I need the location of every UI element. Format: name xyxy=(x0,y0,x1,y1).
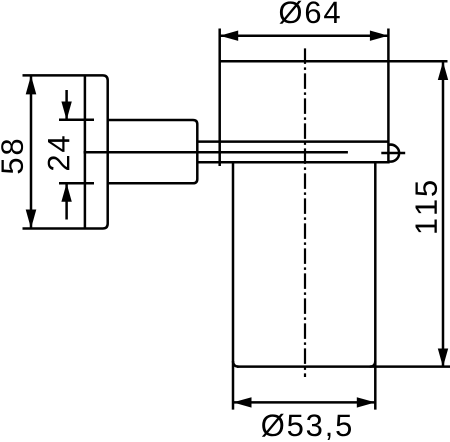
tumbler bottom right rounded corner xyxy=(370,361,376,367)
dim line diameter 64 xyxy=(220,34,389,37)
arrow 24 top (pointing down) xyxy=(61,102,71,121)
label dia 53,5 xyxy=(262,414,351,440)
tumbler body right edge + diameter extension xyxy=(374,162,377,409)
tumbler right edge upper (with dim extension) xyxy=(387,29,390,164)
arrow 58 bottom xyxy=(26,210,37,229)
dim line diameter 53.5 xyxy=(233,401,375,404)
label 115 xyxy=(416,181,438,233)
dim 24 top extension line xyxy=(59,119,94,122)
dim 24 bottom extension line xyxy=(59,182,94,185)
arrow dia64 right xyxy=(370,31,389,41)
dim 24 bottom arrow leader xyxy=(65,183,68,219)
arrow dia64 left xyxy=(220,31,239,41)
rod top edge xyxy=(197,140,388,143)
label dia 64 xyxy=(280,1,340,24)
arrow 115 top xyxy=(438,62,448,81)
label 58 xyxy=(1,140,23,174)
label 24 xyxy=(48,136,70,170)
tumbler bottom left rounded corner xyxy=(233,361,239,367)
rod bottom edge xyxy=(197,161,388,164)
arrow 58 top xyxy=(26,75,37,94)
rod tip crosshair xyxy=(381,152,405,155)
tumbler left edge upper (with dim extension) xyxy=(218,29,221,167)
vertical centerline dash-dot xyxy=(304,48,306,377)
dim 24 top arrow leader xyxy=(65,90,68,120)
wall plate xyxy=(23,75,108,228)
arrow 24 bottom (pointing up) xyxy=(61,183,71,202)
arrow 115 bottom xyxy=(438,349,448,368)
arrow dia53.5 right xyxy=(357,397,376,407)
dim line 58 xyxy=(30,75,33,228)
arrow dia53.5 left xyxy=(233,397,252,407)
tumbler bottom edge + 115 bottom extension xyxy=(237,365,450,368)
rod rounded tip arc xyxy=(388,145,399,162)
arm xyxy=(108,120,198,183)
tumbler body left edge + diameter extension xyxy=(232,162,235,409)
tumbler top edge + 115 top extension xyxy=(220,60,448,63)
rod center line xyxy=(84,151,348,154)
wall plate left edge xyxy=(84,75,87,228)
dim line 115 xyxy=(442,62,445,368)
